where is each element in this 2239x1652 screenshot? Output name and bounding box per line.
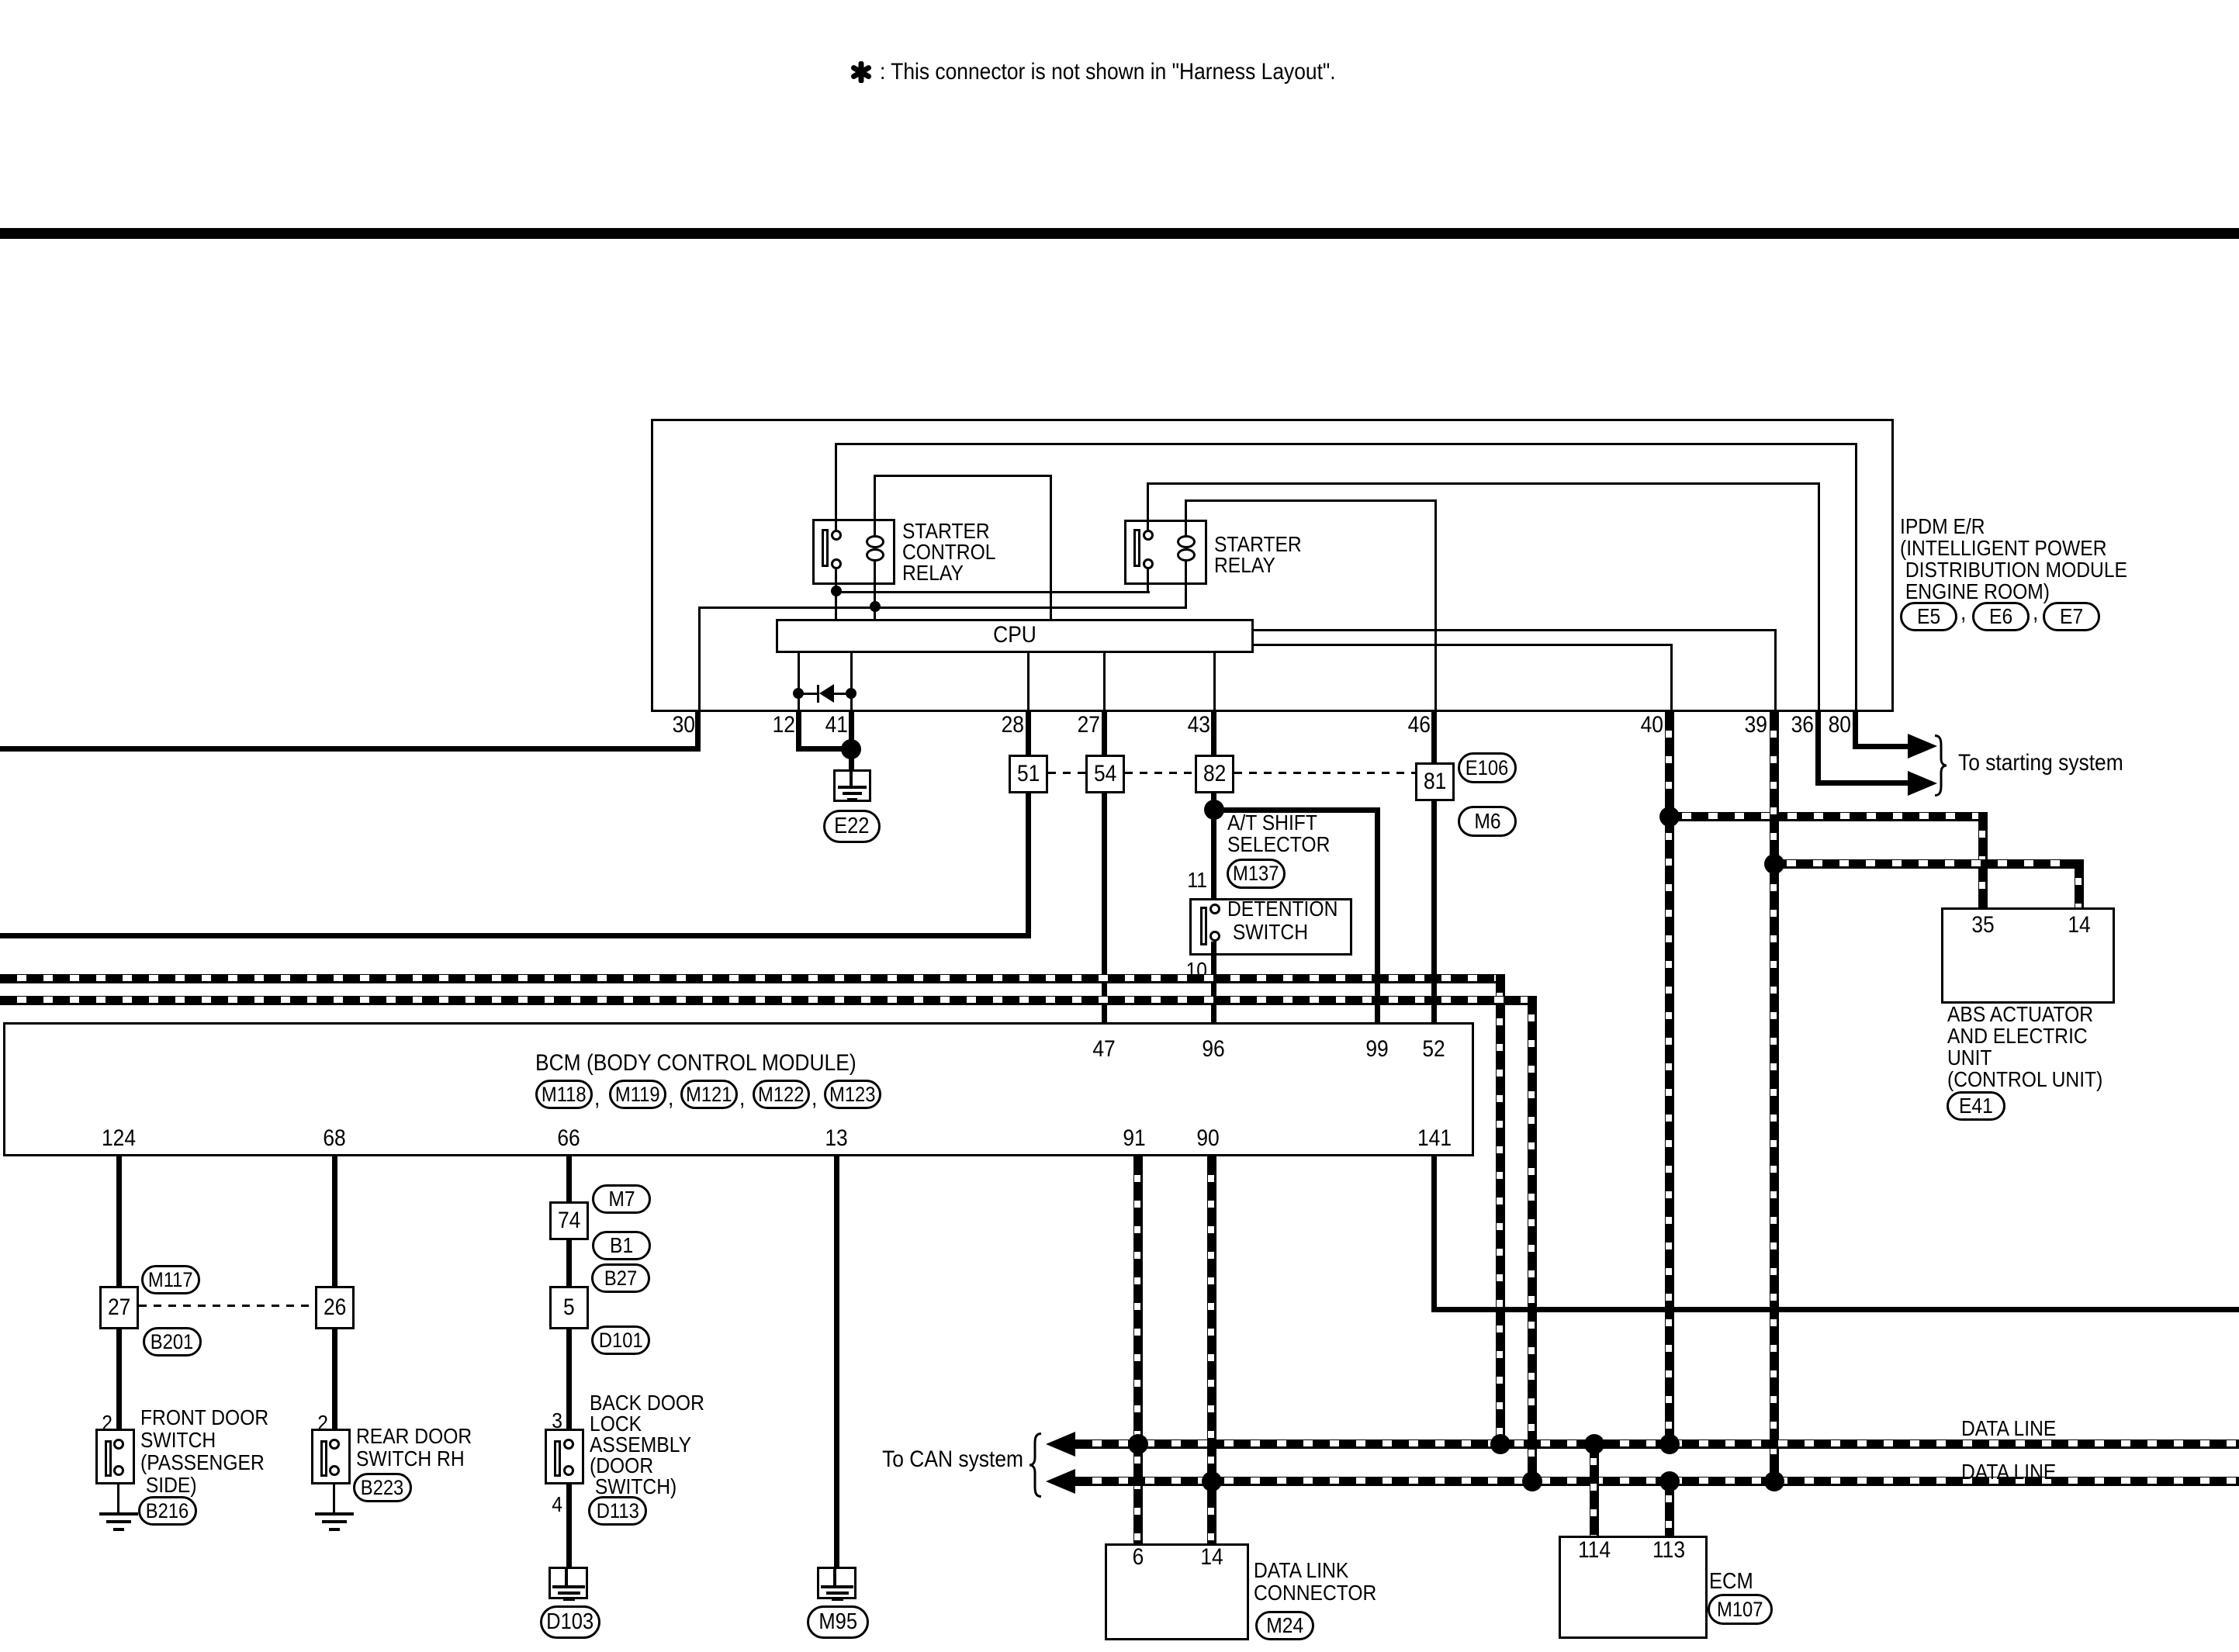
- wire BCM66 drop: [566, 1156, 572, 1201]
- front door switch circle top: [113, 1439, 124, 1450]
- junction dot pin41 ground: [841, 739, 861, 759]
- junction dot 90 on DATA LINE2: [1202, 1471, 1222, 1491]
- ground M95 stem: [833, 1569, 836, 1587]
- connector square 81: [1415, 762, 1455, 801]
- wire pin30 to page left: [0, 746, 701, 752]
- detention switch circle bottom: [1209, 931, 1220, 942]
- CAN wire pin40 drop: [1665, 712, 1674, 1449]
- detention switch box: [1189, 898, 1352, 956]
- starter relay box: [1124, 520, 1207, 585]
- wire pin27 external drop: [1102, 712, 1107, 755]
- starter relay coil loop1: [1177, 535, 1196, 548]
- rear door ground bar3: [329, 1528, 340, 1531]
- connector M95: [807, 1605, 869, 1639]
- diode D1 triangle: [819, 684, 834, 703]
- ground E22 bar2: [843, 792, 862, 795]
- back door switch circle bottom: [563, 1465, 574, 1476]
- connector square 26: [315, 1286, 355, 1329]
- CPU box U1: [776, 619, 1254, 653]
- rear door switch box: [311, 1429, 351, 1484]
- diode D1 cathode lead: [834, 693, 852, 695]
- wire CPU pin 41 drop: [850, 653, 853, 712]
- note asterisk symbol: [850, 61, 872, 83]
- BCM box: [3, 1022, 1474, 1156]
- wire down to BCM 99: [1375, 807, 1380, 1022]
- connector D101: [591, 1325, 650, 1355]
- CAN drop to ABS 35: [1978, 812, 1988, 907]
- junction dot diode right: [846, 688, 856, 699]
- dashed link 82-81: [1234, 772, 1415, 774]
- BCM title: [535, 1051, 900, 1076]
- BCM pin 96 label: [1200, 1037, 1226, 1062]
- wire back door to ground: [566, 1484, 572, 1567]
- wire pin30 external drop: [695, 712, 701, 749]
- wire BCM13 drop: [834, 1156, 839, 1567]
- rear door ground stem: [333, 1484, 335, 1512]
- back door label block: [590, 1392, 720, 1497]
- wire detention to BCM 96: [1211, 942, 1216, 1022]
- junction dot ECM113 on DATA LINE2: [1659, 1471, 1680, 1491]
- IPDM pin 36 label: [1788, 713, 1814, 738]
- DLC pin 14 label: [1199, 1545, 1224, 1570]
- connector square 74: [549, 1201, 589, 1240]
- CAN line lower left pair: [0, 996, 1537, 1005]
- back door pin 4 label: [550, 1493, 562, 1515]
- wire 54 to BCM 47: [1102, 793, 1107, 1022]
- wire pin 39 drop: [1774, 629, 1777, 712]
- CAN branch to ABS 14: [1770, 859, 2084, 869]
- connector E22: [823, 810, 881, 843]
- wire BCM141 drop: [1431, 1156, 1437, 1312]
- ECM pin 113 label: [1650, 1538, 1687, 1563]
- rear door ground bar1: [315, 1512, 354, 1515]
- rear door switch label: [356, 1425, 488, 1470]
- starter control relay contact circle top: [831, 530, 842, 541]
- connector B223: [353, 1473, 412, 1502]
- DATA LINE lower: [1075, 1477, 2239, 1486]
- wire 26 to rear door switch: [332, 1329, 337, 1429]
- junction dot 91 on DATA LINE: [1128, 1434, 1148, 1454]
- comma after E5: [1960, 600, 1967, 625]
- wire starter relay coil bottom stub: [1185, 562, 1187, 607]
- dashed link 27-26: [139, 1305, 315, 1307]
- BCM pin 90 label: [1195, 1126, 1220, 1151]
- wire pin12 external drop: [796, 712, 801, 749]
- IPDM pin 12 label: [770, 713, 795, 738]
- connector D103: [540, 1605, 600, 1639]
- ABS actuator box: [1941, 907, 2115, 1004]
- starter control relay coil loop2: [866, 548, 884, 562]
- wire CPU pin 43 drop: [1213, 653, 1216, 712]
- junction dot node 43: [1204, 800, 1224, 820]
- comma after M119: [668, 1086, 674, 1111]
- connector B1: [592, 1231, 651, 1260]
- dashed link 54-82: [1125, 772, 1195, 774]
- wire CPU right pin39 horizontal: [1254, 629, 1777, 631]
- DLC label block: [1254, 1559, 1393, 1604]
- CAN line upper left pair: [0, 974, 1505, 983]
- wire pin28 external drop: [1026, 712, 1031, 755]
- starter relay contact circle top: [1143, 530, 1154, 541]
- IPDM pin 80 label: [1825, 713, 1851, 738]
- wire pin 46 drop: [1434, 499, 1437, 712]
- CPU label: [990, 623, 1039, 648]
- wire BCM68 drop: [332, 1156, 337, 1286]
- wire pin80 external drop: [1853, 712, 1858, 749]
- connector M24: [1255, 1611, 1314, 1640]
- back door switch box: [545, 1429, 584, 1484]
- brace to CAN system: [1027, 1433, 1043, 1498]
- connector M122: [753, 1080, 810, 1109]
- front door switch bar: [105, 1440, 112, 1477]
- BCM pin 124 label: [99, 1126, 138, 1151]
- connector B216: [138, 1496, 197, 1526]
- front door ground bar3: [113, 1528, 124, 1531]
- to CAN system text: [863, 1447, 1023, 1472]
- junction dot pin40 on DATA LINE: [1659, 1434, 1680, 1454]
- ground M95 symbol box: [817, 1567, 856, 1599]
- comma after M121: [739, 1086, 746, 1111]
- CAN drop to ABS 14: [2075, 859, 2084, 907]
- wire CPU pin 12 drop: [798, 653, 800, 712]
- BCM pin 141 label: [1415, 1126, 1454, 1151]
- to starting system text: [1958, 751, 2146, 776]
- arrow to CAN upper: [1046, 1432, 1075, 1457]
- junction dot ECM114 on DATA LINE: [1584, 1434, 1604, 1454]
- starter control relay coil loop1: [866, 535, 884, 548]
- junction dot CAN pair upper: [1490, 1434, 1511, 1454]
- DATA LINE lower label: [1961, 1460, 2069, 1483]
- starter control relay contact circle bottom: [831, 558, 842, 569]
- wire y622 horizontal: [1147, 482, 1820, 485]
- IPDM pin 40 label: [1638, 713, 1663, 738]
- front door switch box: [95, 1429, 135, 1484]
- rear door ground bar2: [322, 1520, 347, 1523]
- IPDM pin 41 label: [822, 713, 848, 738]
- back door switch circle top: [563, 1439, 574, 1450]
- BCM pin 99 label: [1364, 1037, 1389, 1062]
- CAN lower pair corner drop: [1528, 996, 1537, 1486]
- wire y644 horizontal: [1185, 499, 1437, 502]
- wire pin12 jog to pin41: [796, 746, 854, 752]
- connector square 54: [1085, 755, 1125, 793]
- wire 141 to page right: [1431, 1307, 2239, 1312]
- arrow to starting system lower: [1908, 771, 1937, 796]
- comma after M122: [812, 1086, 818, 1111]
- ground E22 stem: [850, 772, 853, 786]
- starter control relay box: [812, 519, 895, 585]
- starter relay contact bar: [1133, 529, 1140, 567]
- detention switch label: [1227, 897, 1353, 944]
- diode D1 bar: [817, 685, 819, 703]
- IPDM pin 43 label: [1185, 713, 1210, 738]
- wire pin36 external drop: [1815, 712, 1821, 786]
- IPDM pin 46 label: [1405, 713, 1431, 738]
- junction dot pin40 branch: [1659, 807, 1680, 827]
- ground M95 bar2: [826, 1592, 849, 1595]
- arrow to starting system upper: [1908, 734, 1937, 759]
- wire starter relay coil riser: [1185, 499, 1187, 535]
- wire pin 30 internal drop: [698, 607, 701, 712]
- wire CPU pin 27 drop: [1103, 653, 1106, 712]
- comma after M118: [594, 1086, 600, 1111]
- wire BCM124 drop: [116, 1156, 122, 1286]
- ABS pin 35 label: [1970, 913, 1995, 938]
- top border rule: [0, 228, 2239, 239]
- CAN wire pin39 drop: [1770, 712, 1779, 1486]
- rear door pin 2 label: [316, 1412, 328, 1434]
- junction dot coil bottom: [870, 601, 881, 612]
- front door ground stem: [117, 1484, 119, 1512]
- wire pin 36 drop: [1818, 482, 1820, 712]
- DLC pin 6 label: [1132, 1545, 1145, 1570]
- rear door switch circle top: [329, 1439, 340, 1450]
- IPDM E/R box: [651, 419, 1894, 712]
- IPDM pin 30 label: [670, 713, 695, 738]
- connector M123: [824, 1080, 881, 1109]
- wire pin 80 drop: [1855, 443, 1857, 712]
- ABS pin 14 label: [2066, 913, 2092, 938]
- wire node43 down to detention 11: [1211, 810, 1216, 904]
- wire control relay coil riser: [874, 475, 876, 535]
- BCM pin 47 label: [1091, 1037, 1116, 1062]
- CAN wire BCM90 drop: [1207, 1156, 1216, 1543]
- detention pin 11 label: [1185, 869, 1207, 891]
- IPDM pin 27 label: [1075, 713, 1100, 738]
- junction dot pin39 on DATA LINE2: [1764, 1471, 1784, 1491]
- BCM pin 91 label: [1121, 1126, 1147, 1151]
- BCM pin 13 label: [823, 1126, 849, 1151]
- connector square 27: [99, 1286, 139, 1329]
- ABS label block: [1947, 1004, 2124, 1090]
- ground D103 bar1: [552, 1585, 585, 1588]
- connector M118: [535, 1080, 593, 1109]
- starter relay coil loop2: [1177, 548, 1196, 562]
- AT shift selector label: [1227, 812, 1344, 855]
- junction dot CAN pair lower: [1522, 1471, 1542, 1491]
- DATA LINE upper label: [1961, 1417, 2069, 1439]
- wire pin43 external drop: [1211, 712, 1216, 755]
- wire 81 to BCM 52: [1431, 801, 1437, 1022]
- ECM pin 114 label: [1576, 1538, 1613, 1563]
- ground D103 stem: [565, 1569, 568, 1587]
- connector M7: [592, 1184, 651, 1214]
- connector B27: [591, 1263, 650, 1293]
- wire 51 to page left: [0, 933, 1031, 938]
- dashed link 51-54: [1048, 772, 1085, 774]
- BCM pin 68 label: [321, 1126, 347, 1151]
- connector E7: [2043, 602, 2100, 631]
- data link connector box: [1105, 1543, 1249, 1640]
- wire y571 horizontal: [835, 443, 1857, 445]
- BCM pin 52 label: [1421, 1037, 1446, 1062]
- CAN drop ECM 113: [1665, 1477, 1674, 1536]
- ground M95 bar3: [832, 1598, 843, 1601]
- IPDM pin 39 label: [1742, 713, 1767, 738]
- connector B201: [143, 1327, 202, 1357]
- diode D1 anode lead: [798, 693, 818, 695]
- connector E6: [1972, 602, 2030, 631]
- connector square 51: [1009, 755, 1048, 793]
- junction dot contact bottom: [831, 586, 842, 596]
- wire CPU right pin40 horizontal: [1254, 644, 1673, 646]
- wire 82 to junction: [1211, 793, 1216, 812]
- wire pin36 to arrow: [1815, 780, 1910, 786]
- connector E5: [1900, 602, 1957, 631]
- starter relay label: [1214, 534, 1313, 575]
- CAN upper pair corner drop: [1496, 974, 1505, 1449]
- back door switch bar: [554, 1440, 561, 1477]
- detention switch circle top: [1209, 904, 1220, 914]
- connector M119: [609, 1080, 666, 1109]
- note text: [880, 60, 1398, 85]
- front door ground bar2: [106, 1520, 131, 1523]
- detention pin 10 label: [1183, 959, 1207, 981]
- front door switch circle bottom: [113, 1465, 124, 1476]
- connector M121: [680, 1080, 738, 1109]
- brace to starting system: [1933, 734, 1949, 797]
- wire starter relay contact bottom stub: [1147, 569, 1149, 591]
- wire CPU pin 28 drop: [1027, 653, 1030, 712]
- junction dot diode left: [793, 688, 804, 699]
- junction dot pin39 branch: [1764, 854, 1784, 874]
- ground D103 bar3: [563, 1598, 575, 1601]
- ground E22 bar1: [838, 786, 867, 789]
- arrow to CAN lower: [1046, 1469, 1075, 1494]
- front door ground bar1: [99, 1512, 138, 1515]
- wire control relay contact to pin 80 riser: [835, 443, 837, 531]
- IPDM pin 28 label: [998, 713, 1024, 738]
- ground E22 bar3: [847, 798, 857, 801]
- wire pin80 to arrow: [1853, 744, 1909, 749]
- connector M117: [141, 1265, 200, 1294]
- wire x1354 drop to CPU: [1050, 475, 1052, 619]
- connector square 5: [549, 1286, 589, 1329]
- wire y612 horizontal: [874, 475, 1052, 477]
- CAN drop ECM 114: [1590, 1439, 1599, 1536]
- wire starter relay contact riser: [1147, 482, 1149, 530]
- connector E41: [1947, 1091, 2005, 1121]
- wire y762 horizontal: [835, 591, 1150, 593]
- wire control relay contact bottom: [835, 569, 837, 619]
- starter control relay label: [902, 520, 1009, 583]
- connector square 82: [1195, 755, 1234, 793]
- back door pin 3 label: [550, 1409, 562, 1432]
- wire pin 40 drop: [1670, 644, 1673, 712]
- wire y782 horizontal pin30 net: [698, 607, 1187, 609]
- ground M95 bar1: [821, 1585, 853, 1588]
- connector D113: [588, 1496, 647, 1526]
- connector M107: [1708, 1594, 1773, 1625]
- CAN wire BCM91 drop: [1133, 1156, 1143, 1543]
- wire pin41 external drop: [849, 712, 854, 771]
- DATA LINE upper: [1075, 1439, 2239, 1449]
- starter control relay contact bar: [822, 529, 829, 567]
- comma after E6: [2033, 600, 2039, 625]
- ground E22 symbol box: [833, 769, 871, 802]
- starter relay contact circle bottom: [1143, 558, 1154, 569]
- wire node43 horizontal to pin99 riser: [1211, 807, 1380, 813]
- detention switch bar: [1200, 907, 1207, 945]
- connector M6: [1458, 806, 1517, 837]
- connector M137: [1227, 859, 1286, 889]
- rear door switch bar: [320, 1440, 327, 1477]
- BCM pin 66 label: [555, 1126, 581, 1151]
- ground D103 symbol box: [549, 1567, 588, 1599]
- ground D103 bar2: [558, 1592, 580, 1595]
- IPDM label block: [1900, 516, 2158, 603]
- front door pin 2 label: [100, 1412, 112, 1434]
- wire control relay coil bottom: [874, 562, 876, 619]
- wire 51 drop: [1026, 793, 1031, 936]
- wire 5 to back door switch: [566, 1329, 572, 1429]
- ECM box: [1559, 1536, 1708, 1639]
- wire pin46 external drop: [1431, 712, 1437, 762]
- wire 74 to 5: [566, 1240, 572, 1286]
- front door switch label: [140, 1406, 286, 1496]
- rear door switch circle bottom: [329, 1465, 340, 1476]
- connector E106: [1458, 752, 1517, 783]
- ECM label: [1709, 1570, 1759, 1593]
- CAN branch to ABS 35: [1665, 812, 1988, 821]
- wire 27 to front door switch: [116, 1329, 122, 1429]
